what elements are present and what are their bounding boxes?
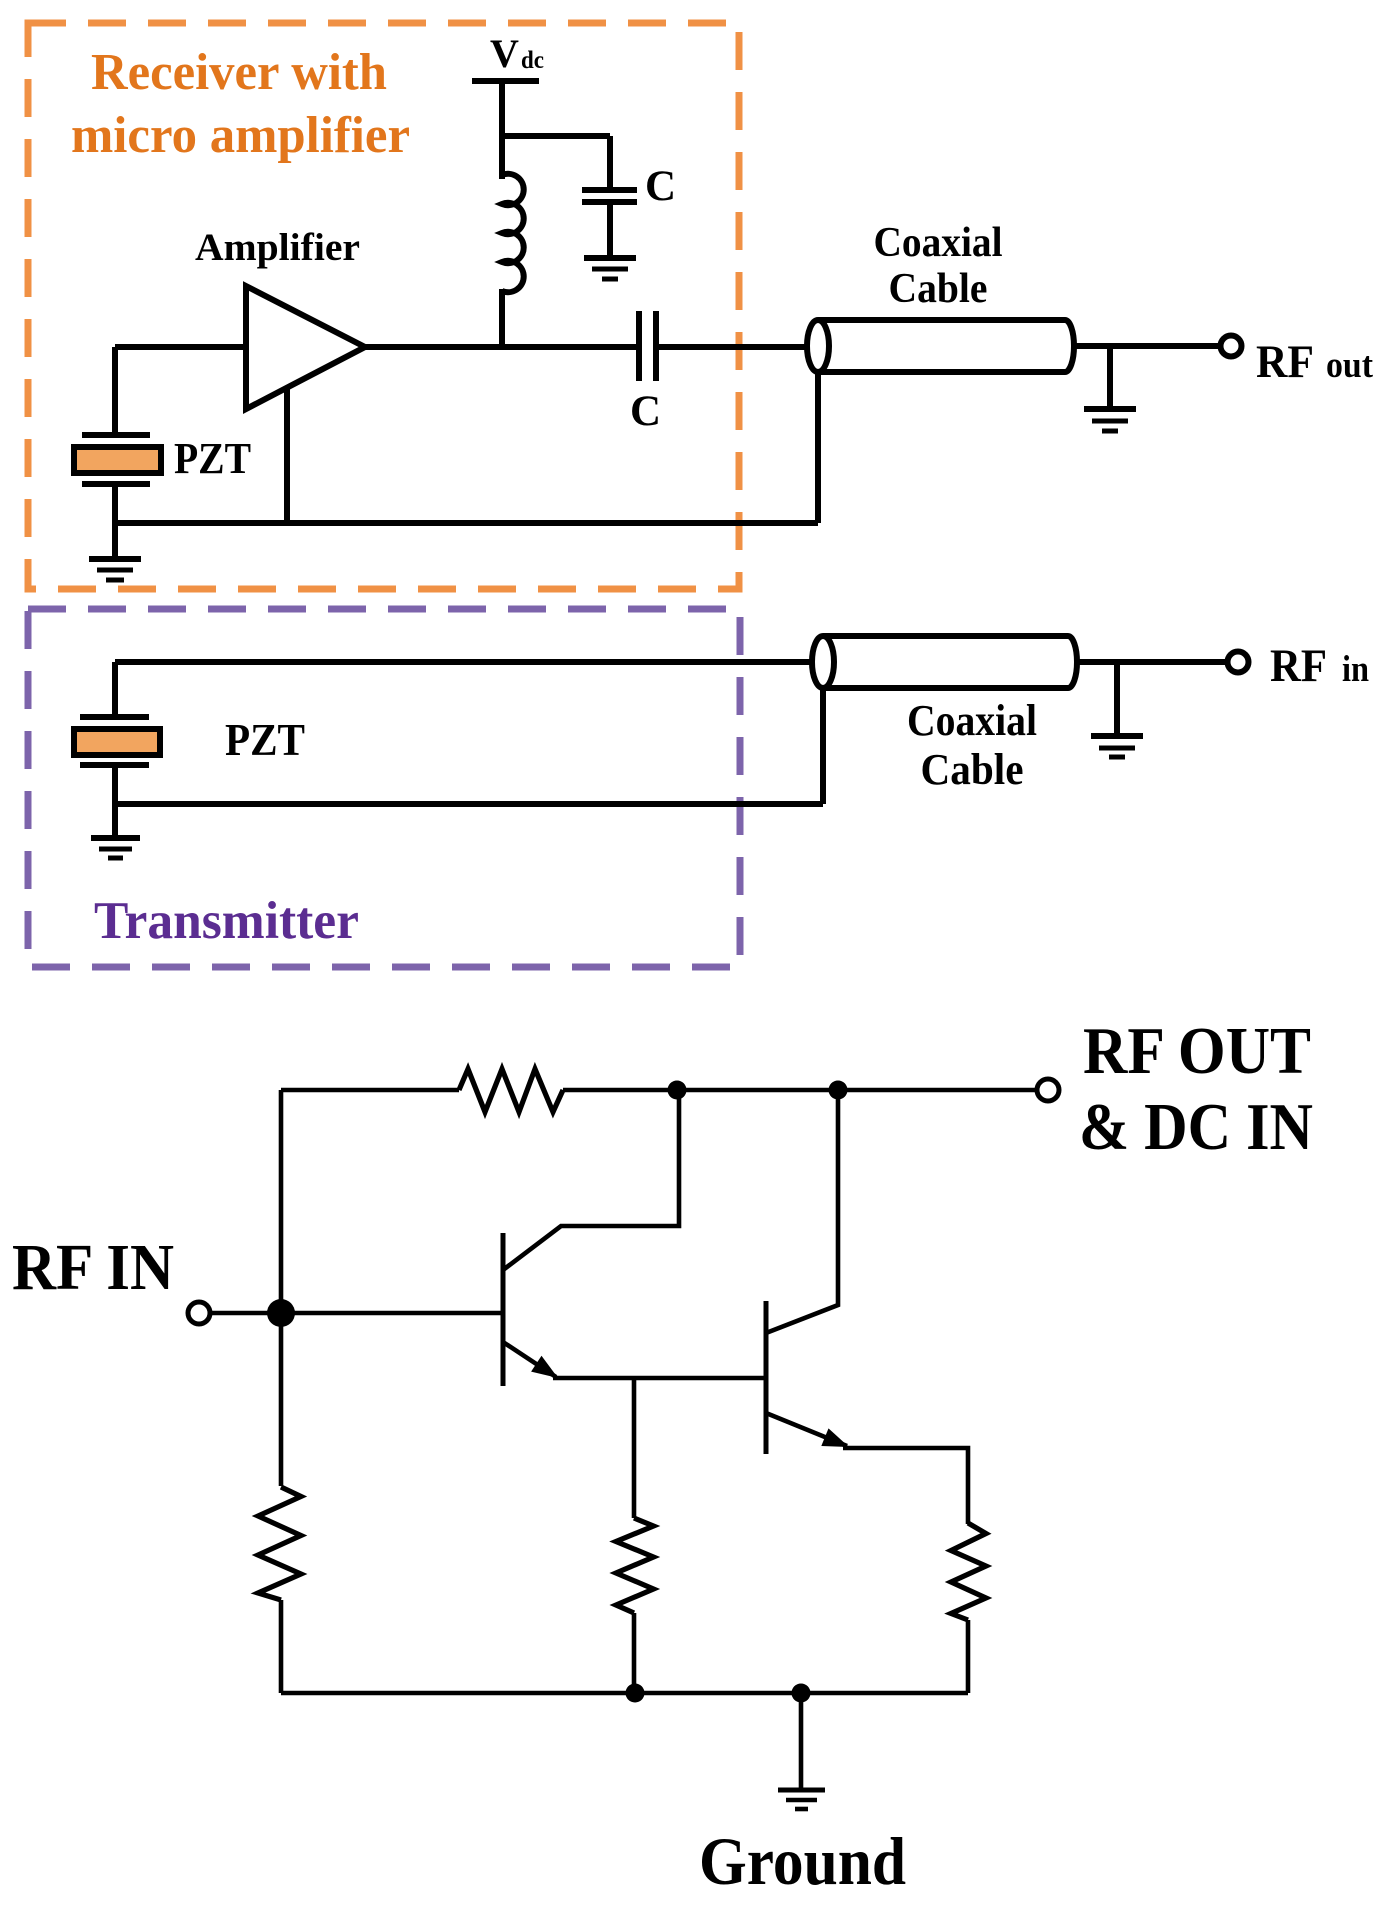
svg-text:PZT: PZT <box>225 715 305 765</box>
svg-text:RF IN: RF IN <box>12 1231 174 1304</box>
svg-text:Cable: Cable <box>921 745 1024 794</box>
svg-text:Coaxial: Coaxial <box>907 696 1037 745</box>
svg-text:micro amplifier: micro amplifier <box>71 107 410 164</box>
svg-text:RF: RF <box>1256 336 1314 388</box>
svg-text:& DC IN: & DC IN <box>1079 1090 1313 1164</box>
svg-text:in: in <box>1342 649 1369 690</box>
svg-text:PZT: PZT <box>174 434 251 483</box>
svg-text:dc: dc <box>521 47 544 74</box>
svg-text:Receiver with: Receiver with <box>91 44 387 101</box>
svg-text:C: C <box>630 388 661 435</box>
svg-text:Transmitter: Transmitter <box>94 892 359 950</box>
svg-text:RF: RF <box>1270 640 1327 692</box>
svg-text:Coaxial: Coaxial <box>874 220 1003 266</box>
svg-text:out: out <box>1326 345 1374 386</box>
svg-text:Cable: Cable <box>889 266 988 312</box>
svg-text:V: V <box>490 31 519 76</box>
svg-text:Amplifier: Amplifier <box>195 226 360 269</box>
svg-text:Ground: Ground <box>699 1823 906 1899</box>
svg-text:RF OUT: RF OUT <box>1083 1014 1311 1088</box>
svg-text:C: C <box>645 163 676 210</box>
